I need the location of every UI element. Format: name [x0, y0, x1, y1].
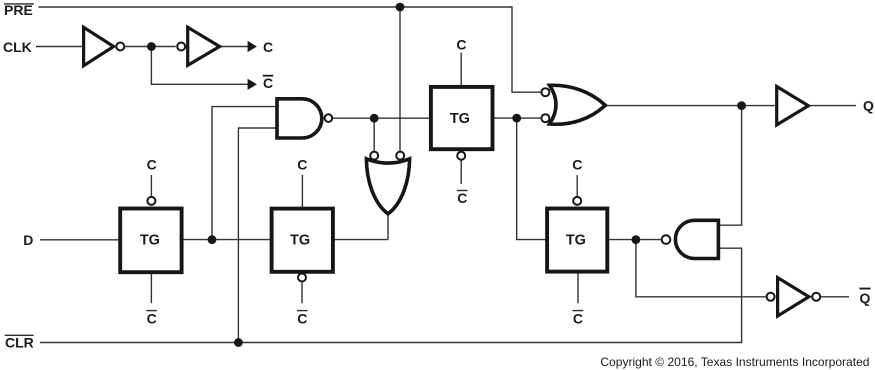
svg-text:TG: TG	[290, 232, 310, 248]
svg-text:CLR: CLR	[5, 335, 34, 351]
svg-text:Q: Q	[863, 98, 874, 114]
svg-text:C: C	[572, 157, 582, 173]
svg-text:TG: TG	[566, 232, 586, 248]
svg-text:C: C	[147, 157, 157, 173]
svg-text:Copyright © 2016, Texas Instru: Copyright © 2016, Texas Instruments Inco…	[600, 355, 869, 369]
svg-text:C: C	[147, 310, 157, 326]
svg-text:C: C	[457, 190, 467, 206]
svg-text:TG: TG	[450, 111, 470, 127]
svg-text:CLK: CLK	[3, 39, 32, 55]
svg-text:D: D	[23, 232, 33, 248]
svg-text:C: C	[263, 39, 273, 55]
svg-text:Q: Q	[860, 290, 871, 306]
svg-text:C: C	[263, 75, 273, 91]
svg-text:C: C	[573, 310, 583, 326]
svg-text:C: C	[456, 37, 466, 53]
svg-text:C: C	[297, 310, 307, 326]
svg-text:C: C	[297, 157, 307, 173]
svg-text:TG: TG	[140, 232, 160, 248]
